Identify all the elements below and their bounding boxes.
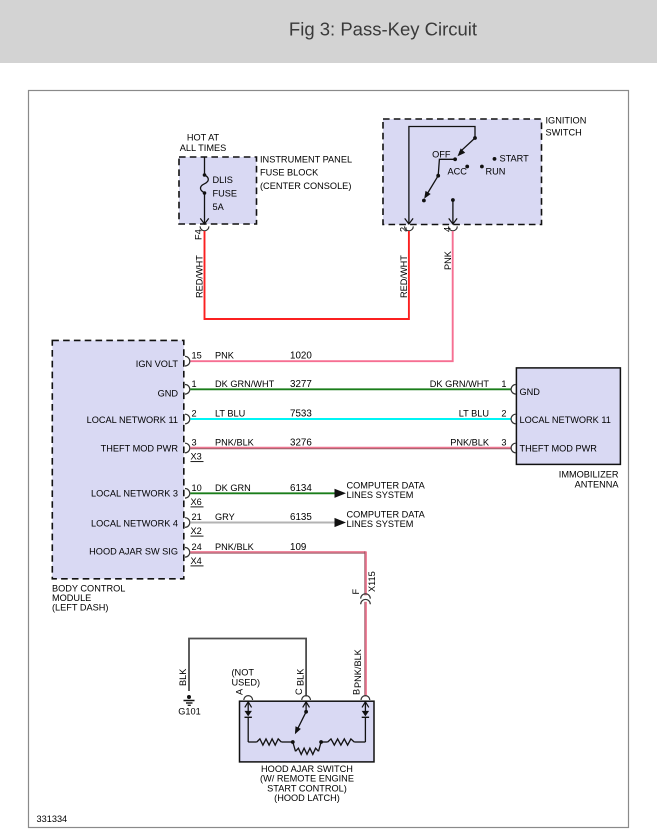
BCM pin 21 LOCAL NETWORK 4 (91, 512, 203, 536)
svg-text:THEFT MOD PWR: THEFT MOD PWR (520, 444, 598, 454)
svg-text:3: 3 (192, 438, 197, 448)
wire PNK/BLK to hood switch pin B (353, 602, 366, 697)
connector pin 4 (443, 226, 458, 232)
svg-text:GND: GND (520, 387, 541, 397)
svg-text:1020: 1020 (290, 351, 312, 362)
svg-text:DLIS: DLIS (213, 175, 233, 185)
wire PNK/BLK 109 (190, 542, 366, 596)
instrument panel fuse block box (179, 157, 257, 224)
svg-text:LT BLU: LT BLU (215, 409, 245, 419)
wire GRY 6135 to computer data lines (190, 510, 425, 530)
wire labels PNK 1020 (215, 351, 312, 362)
svg-text:G101: G101 (178, 707, 200, 717)
svg-text:2: 2 (398, 227, 408, 232)
svg-text:(LEFT DASH): (LEFT DASH) (52, 603, 109, 613)
immobilizer pin 3 THEFT MOD PWR (511, 443, 597, 453)
svg-text:24: 24 (192, 542, 202, 552)
BCM pin 24 HOOD AJAR SW SIG (89, 542, 203, 566)
BCM pin 2 LOCAL NETWORK 11 (87, 409, 197, 426)
svg-text:(HOOD LATCH): (HOOD LATCH) (274, 793, 340, 803)
svg-text:IGN VOLT: IGN VOLT (136, 359, 179, 369)
label IGNITION SWITCH (546, 115, 587, 137)
svg-text:PNK: PNK (443, 250, 453, 270)
svg-text:F: F (351, 589, 361, 595)
immobilizer side wire labels (430, 379, 507, 448)
resistor left (248, 739, 294, 745)
connector pin A (235, 688, 253, 700)
title bar (0, 0, 657, 63)
svg-text:LINES SYSTEM: LINES SYSTEM (347, 519, 414, 529)
resistor middle (293, 740, 323, 754)
svg-text:X115: X115 (367, 571, 377, 592)
wiper arm to common contact (422, 159, 455, 202)
svg-text:A: A (235, 688, 245, 695)
svg-text:LINES SYSTEM: LINES SYSTEM (347, 490, 414, 500)
svg-text:3277: 3277 (290, 379, 312, 390)
svg-text:FUSE BLOCK: FUSE BLOCK (260, 168, 319, 178)
svg-text:LOCAL NETWORK 11: LOCAL NETWORK 11 (520, 415, 611, 425)
wire BLK ground to hood switch pin C (178, 639, 306, 697)
svg-text:LOCAL NETWORK 4: LOCAL NETWORK 4 (91, 519, 178, 529)
svg-text:OFF: OFF (432, 150, 451, 160)
svg-text:BLK: BLK (178, 668, 188, 686)
wire PNK ignition pin 4 to BCM pin 15 (190, 231, 453, 361)
svg-text:BODY CONTROL: BODY CONTROL (52, 584, 125, 594)
svg-text:X2: X2 (191, 526, 202, 536)
label HOT AT ALL TIMES (180, 133, 226, 154)
svg-text:2: 2 (501, 409, 506, 419)
svg-text:15: 15 (192, 351, 202, 361)
fuse F4 DLIS FUSE 5A (200, 157, 237, 224)
svg-text:START: START (500, 154, 530, 164)
svg-text:3: 3 (501, 438, 506, 448)
svg-text:RED/WHT: RED/WHT (399, 255, 409, 298)
svg-text:(W/ REMOTE ENGINE: (W/ REMOTE ENGINE (260, 774, 354, 784)
connector pin B (351, 689, 370, 700)
svg-text:RUN: RUN (486, 167, 506, 177)
label (NOT USED) (232, 668, 261, 688)
svg-text:X3: X3 (191, 452, 202, 462)
svg-text:COMPUTER DATA: COMPUTER DATA (347, 510, 426, 520)
svg-text:START CONTROL): START CONTROL) (267, 783, 347, 793)
svg-text:LT BLU: LT BLU (459, 409, 489, 419)
svg-text:INSTRUMENT PANEL: INSTRUMENT PANEL (260, 155, 352, 165)
svg-text:(NOT: (NOT (232, 668, 255, 678)
svg-text:6135: 6135 (290, 512, 312, 523)
svg-text:X6: X6 (191, 497, 202, 507)
svg-text:5A: 5A (213, 202, 225, 212)
wire PNK/BLK 3276 (190, 438, 511, 449)
ground G101 (178, 695, 200, 717)
wire DK GRN/WHT 3277 (190, 379, 511, 390)
immobilizer pin 1 GND (511, 385, 540, 398)
svg-text:DK GRN/WHT: DK GRN/WHT (215, 379, 275, 389)
svg-text:LOCAL NETWORK 3: LOCAL NETWORK 3 (91, 489, 178, 499)
svg-text:F4: F4 (194, 229, 204, 240)
svg-text:PNK: PNK (215, 351, 235, 361)
svg-text:B: B (351, 689, 361, 695)
BCM pin 1 GND (158, 379, 197, 399)
label IMMOBILIZER ANTENNA (559, 470, 620, 490)
svg-text:109: 109 (290, 542, 306, 553)
svg-text:PNK/BLK: PNK/BLK (353, 648, 363, 688)
label BODY CONTROL MODULE (LEFT DASH) (52, 584, 125, 613)
svg-text:1: 1 (192, 379, 197, 389)
svg-text:ALL TIMES: ALL TIMES (180, 143, 226, 153)
inline connector X115 pin F (351, 571, 377, 604)
wire LT BLU 7533 (190, 409, 511, 420)
BCM pin 15 IGN VOLT (136, 351, 202, 369)
body control module box (52, 340, 184, 578)
svg-text:IMMOBILIZER: IMMOBILIZER (559, 470, 619, 480)
svg-text:21: 21 (192, 512, 202, 522)
svg-text:3276: 3276 (290, 438, 312, 449)
hood switch contact from pin C (295, 702, 310, 735)
svg-text:LOCAL NETWORK 11: LOCAL NETWORK 11 (87, 415, 178, 425)
svg-text:(CENTER CONSOLE): (CENTER CONSOLE) (260, 181, 351, 191)
svg-text:4: 4 (443, 227, 453, 232)
svg-text:PNK/BLK: PNK/BLK (215, 542, 255, 552)
resistor right (321, 739, 365, 745)
svg-text:SWITCH: SWITCH (546, 127, 582, 137)
immobilizer pin 2 LOCAL NETWORK 11 (511, 414, 611, 425)
svg-text:PNK/BLK: PNK/BLK (450, 438, 490, 448)
svg-text:GND: GND (158, 389, 179, 399)
svg-text:FUSE: FUSE (213, 189, 238, 199)
label INSTRUMENT PANEL FUSE BLOCK (CENTER CONSOLE) (260, 155, 352, 192)
wire DK GRN 6134 to computer data lines (190, 480, 425, 500)
svg-text:ACC: ACC (448, 167, 468, 177)
svg-text:Fig 3: Pass-Key Circuit: Fig 3: Pass-Key Circuit (289, 19, 477, 40)
hood ajar switch box (240, 701, 375, 762)
svg-text:10: 10 (192, 483, 202, 493)
svg-text:PNK/BLK: PNK/BLK (215, 438, 255, 448)
immobilizer antenna box (516, 368, 620, 465)
diode at pin B (362, 702, 369, 743)
BCM pin 10 LOCAL NETWORK 3 (91, 483, 203, 507)
svg-text:IGNITION: IGNITION (546, 115, 587, 125)
svg-text:HOOD AJAR SWITCH: HOOD AJAR SWITCH (261, 764, 353, 774)
connector pin F4 (194, 226, 209, 240)
svg-text:C: C (294, 688, 304, 695)
switch position contacts OFF ACC RUN START (432, 150, 529, 177)
svg-text:1: 1 (501, 379, 506, 389)
svg-text:COMPUTER DATA: COMPUTER DATA (347, 480, 426, 490)
connector pin 2 (398, 226, 413, 232)
svg-text:BLK: BLK (296, 668, 306, 686)
svg-text:331334: 331334 (37, 814, 68, 824)
svg-text:GRY: GRY (215, 512, 235, 522)
BCM pin 3 THEFT MOD PWR (101, 438, 204, 462)
svg-text:HOT AT: HOT AT (187, 133, 220, 143)
ignition switch box (383, 119, 542, 225)
connector pin C (294, 688, 311, 700)
svg-text:MODULE: MODULE (52, 593, 91, 603)
svg-text:ANTENNA: ANTENNA (575, 480, 620, 490)
svg-text:DK GRN: DK GRN (215, 483, 251, 493)
svg-text:7533: 7533 (290, 409, 312, 420)
svg-text:DK GRN/WHT: DK GRN/WHT (430, 379, 490, 389)
diode at pin A (245, 702, 252, 743)
wire RED/WHT F4 to ignition pin 2 (195, 231, 409, 319)
label HOOD AJAR SWITCH (260, 764, 354, 803)
svg-text:X4: X4 (191, 556, 202, 566)
svg-text:RED/WHT: RED/WHT (195, 255, 205, 298)
svg-text:THEFT MOD PWR: THEFT MOD PWR (101, 444, 179, 454)
svg-text:USED): USED) (232, 678, 261, 688)
svg-text:HOOD AJAR SW SIG: HOOD AJAR SW SIG (89, 547, 178, 557)
ignition switch feed wire from pin 2 (405, 127, 477, 225)
svg-text:6134: 6134 (290, 483, 312, 494)
svg-text:2: 2 (192, 409, 197, 419)
pin 4 stub (449, 198, 457, 224)
